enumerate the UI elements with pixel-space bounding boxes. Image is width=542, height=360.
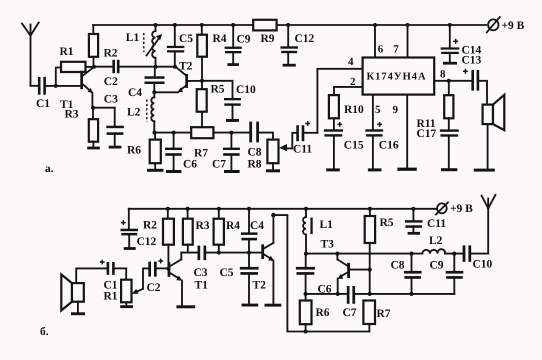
node C7 xyxy=(229,131,233,135)
svg-text:R6: R6 xyxy=(316,307,330,319)
svg-text:L1: L1 xyxy=(126,32,140,44)
antenna WA2 xyxy=(482,195,496,254)
node T1 emitter xyxy=(91,106,95,110)
svg-text:C9: C9 xyxy=(237,34,251,46)
svg-text:R3: R3 xyxy=(196,220,210,232)
svg-text:2: 2 xyxy=(350,76,356,88)
svg-text:R5: R5 xyxy=(211,84,225,96)
capacitor C11 electrolytic xyxy=(296,121,317,141)
node C6/R6 xyxy=(304,292,308,296)
svg-text:C16: C16 xyxy=(379,140,399,152)
wire emitter to C3 xyxy=(92,107,114,109)
pin 5 wire / capacitor C16 xyxy=(365,95,383,172)
svg-text:б.: б. xyxy=(40,326,49,338)
capacitor C8 (series) xyxy=(249,122,273,143)
node R7 top xyxy=(368,292,372,296)
svg-text:R3: R3 xyxy=(65,109,79,121)
capacitor C6 xyxy=(296,254,315,294)
svg-text:T1: T1 xyxy=(195,280,209,292)
svg-text:C12: C12 xyxy=(295,33,315,45)
top rail b xyxy=(129,208,437,210)
svg-text:4: 4 xyxy=(348,56,354,68)
svg-text:C12: C12 xyxy=(137,236,157,248)
resistor R1 xyxy=(56,62,94,86)
svg-text:R5: R5 xyxy=(380,217,394,229)
svg-text:R2: R2 xyxy=(143,220,157,232)
resistor R7 xyxy=(191,127,213,138)
svg-text:К174УН4А: К174УН4А xyxy=(367,72,427,83)
resistor R6 xyxy=(300,294,312,332)
svg-text:+9 В: +9 В xyxy=(450,203,473,215)
svg-text:R4: R4 xyxy=(226,220,240,232)
IC U1 K174UN4A xyxy=(363,58,435,95)
pin 8 wire xyxy=(434,80,471,82)
pin 9 wire to ground xyxy=(397,95,416,171)
svg-text:T2: T2 xyxy=(179,61,193,73)
capacitor C1 xyxy=(38,77,46,95)
svg-text:T2: T2 xyxy=(253,280,267,292)
node T3 collector xyxy=(335,252,339,256)
node pin8/R11 xyxy=(447,79,451,83)
+9V terminal b xyxy=(436,202,448,214)
wire antenna to C1 xyxy=(31,85,38,87)
node T3 base/R5 xyxy=(368,268,372,272)
node L2 bus xyxy=(153,131,157,135)
resistor R5 xyxy=(365,209,375,294)
svg-text:а.: а. xyxy=(45,163,54,175)
node R6 bottom xyxy=(304,330,308,334)
capacitor C5 xyxy=(167,25,185,67)
svg-text:R1: R1 xyxy=(60,46,74,58)
inductor L1 with core xyxy=(303,209,313,254)
bus wire R7 to C8 xyxy=(213,132,249,134)
svg-text:C6: C6 xyxy=(183,159,197,171)
node C8 bottom xyxy=(409,292,413,296)
svg-text:C5: C5 xyxy=(220,267,234,279)
node C8 top xyxy=(409,252,413,256)
svg-text:C7: C7 xyxy=(212,159,226,171)
svg-text:C7: C7 xyxy=(343,307,357,319)
svg-text:C10: C10 xyxy=(473,259,493,271)
inductor L2 (tunable) xyxy=(147,92,155,132)
capacitor C2 electrolytic xyxy=(148,259,167,277)
svg-text:C2: C2 xyxy=(147,282,161,294)
svg-text:L2: L2 xyxy=(429,235,443,247)
capacitor C15 electrolytic xyxy=(324,122,343,171)
svg-text:L1: L1 xyxy=(320,219,334,231)
capacitor C3 (series) xyxy=(198,246,249,261)
antenna WA1 xyxy=(22,23,39,86)
wire to T2 base xyxy=(249,252,261,254)
wire C11 to pin4 xyxy=(317,69,362,133)
capacitor C2 xyxy=(112,60,119,73)
transistor T2 xyxy=(261,215,281,307)
svg-text:R9: R9 xyxy=(261,33,275,45)
potentiometer R1 xyxy=(120,268,148,308)
node C4/L2/emitter xyxy=(152,90,156,94)
node L1/C6 top xyxy=(304,252,308,256)
svg-text:L2: L2 xyxy=(127,107,141,119)
wire C6 node to C7 xyxy=(306,293,347,295)
resistor R6 xyxy=(147,133,163,172)
svg-text:R4: R4 xyxy=(213,33,227,45)
node C9 top xyxy=(452,252,456,256)
wire T1 collector to C3 xyxy=(181,252,197,254)
capacitor C6 xyxy=(165,133,182,173)
svg-text:R7: R7 xyxy=(377,308,391,320)
svg-text:C6: C6 xyxy=(318,284,332,296)
rail right of R9 xyxy=(277,24,487,26)
node C6 xyxy=(172,131,176,135)
capacitor C4 xyxy=(145,67,165,93)
svg-text:C8: C8 xyxy=(391,260,405,272)
capacitor C12 xyxy=(280,25,298,67)
node T1 collector xyxy=(92,65,96,69)
svg-text:C3: C3 xyxy=(194,267,208,279)
resistor R11 xyxy=(444,81,453,130)
svg-text:9: 9 xyxy=(393,104,399,116)
wire L2 to C10 xyxy=(445,253,463,255)
speaker BA1 xyxy=(474,95,505,172)
node L1 bottom xyxy=(154,65,158,69)
wire C2 to T2 collector xyxy=(120,66,177,68)
microphone B1 xyxy=(61,268,106,315)
capacitor C9 xyxy=(446,254,464,294)
wire C1 to T1 base xyxy=(46,85,80,87)
wire collector node to C2 xyxy=(94,66,113,68)
svg-text:C4: C4 xyxy=(128,87,142,99)
node T2 base / R4 / R5 xyxy=(200,79,204,83)
tank wire xyxy=(306,253,422,255)
pin 6 wire xyxy=(374,25,376,58)
resistor R3 xyxy=(183,209,193,253)
capacitor C9 xyxy=(225,25,242,66)
transistor T1 xyxy=(168,253,196,309)
capacitor C12 electrolytic xyxy=(121,209,139,250)
svg-text:C1: C1 xyxy=(36,98,50,110)
capacitor C13 electrolytic (series) xyxy=(463,69,487,105)
wire T2 emitter to C4 node xyxy=(154,91,178,93)
node R4/C3 wire xyxy=(217,251,221,255)
svg-text:C9: C9 xyxy=(430,260,444,272)
resistor R4 xyxy=(214,209,224,253)
resistor R2 xyxy=(163,209,174,269)
capacitor C14 electrolytic xyxy=(441,25,460,65)
wire node to C10 xyxy=(202,81,233,98)
pin 7 wire xyxy=(407,25,409,58)
bus wire L2 to R7 xyxy=(154,132,191,134)
capacitor C3 xyxy=(106,108,124,149)
capacitor C4 xyxy=(241,209,258,253)
svg-text:R8: R8 xyxy=(248,159,262,171)
pin 2 wire xyxy=(334,87,363,95)
node C1-R1 xyxy=(54,84,58,88)
capacitor C5 xyxy=(240,253,259,307)
inductor L1 (variable) xyxy=(144,25,162,67)
svg-text:C13: C13 xyxy=(462,55,482,67)
svg-text:6: 6 xyxy=(378,44,384,56)
svg-text:7: 7 xyxy=(393,44,399,56)
resistor R2 xyxy=(89,25,98,67)
resistor R3 xyxy=(87,108,100,150)
capacitor C1 electrolytic xyxy=(100,260,126,275)
transistor T1 xyxy=(80,67,94,108)
resistor R10 xyxy=(329,95,339,129)
capacitor C10 (series) xyxy=(463,245,489,261)
node C4/C5/T2 base xyxy=(247,251,251,255)
svg-text:C11: C11 xyxy=(293,144,312,156)
rail b nodes xyxy=(166,207,170,211)
node T2 collector stub xyxy=(271,213,275,217)
svg-text:C8: C8 xyxy=(248,147,262,159)
svg-text:C17: C17 xyxy=(417,128,437,140)
svg-text:+9 В: +9 В xyxy=(502,20,525,32)
svg-text:C11: C11 xyxy=(427,218,446,230)
svg-text:5: 5 xyxy=(375,104,381,116)
capacitor C8 xyxy=(404,254,422,294)
capacitor C11 xyxy=(405,209,423,235)
capacitor C17 xyxy=(440,129,459,171)
svg-text:C15: C15 xyxy=(344,140,364,152)
inductor L2 xyxy=(422,249,445,253)
svg-text:R1: R1 xyxy=(104,291,118,303)
potentiometer R8 xyxy=(266,133,296,173)
svg-text:C3: C3 xyxy=(104,94,118,106)
svg-text:C4: C4 xyxy=(250,220,264,232)
capacitor C7 (series) xyxy=(347,286,455,304)
svg-text:8: 8 xyxy=(440,69,446,81)
resistor R9 (in rail) xyxy=(253,20,276,31)
capacitor C10 xyxy=(224,98,241,122)
svg-text:C5: C5 xyxy=(179,33,193,45)
svg-text:C2: C2 xyxy=(104,76,118,88)
top rail circuit a xyxy=(93,24,253,26)
svg-text:R7: R7 xyxy=(194,148,208,160)
svg-text:C10: C10 xyxy=(236,84,256,96)
svg-text:T3: T3 xyxy=(321,239,335,251)
transistor T2 xyxy=(176,67,202,92)
resistor R5 xyxy=(197,81,207,127)
svg-text:R10: R10 xyxy=(344,104,364,116)
resistor R4 xyxy=(197,25,207,81)
svg-text:R6: R6 xyxy=(127,145,141,157)
node R2/T1 base xyxy=(166,267,170,271)
+9V terminal a xyxy=(487,17,500,32)
wire collector feed to R6/R7 bottom xyxy=(273,215,369,331)
resistor R7 xyxy=(363,301,375,332)
rail nodes xyxy=(154,23,158,27)
transistor T3 xyxy=(337,254,369,294)
node T3 emitter xyxy=(336,292,340,296)
capacitor C7 xyxy=(223,133,240,173)
node C5 bottom xyxy=(173,65,177,69)
svg-text:R2: R2 xyxy=(104,48,118,60)
